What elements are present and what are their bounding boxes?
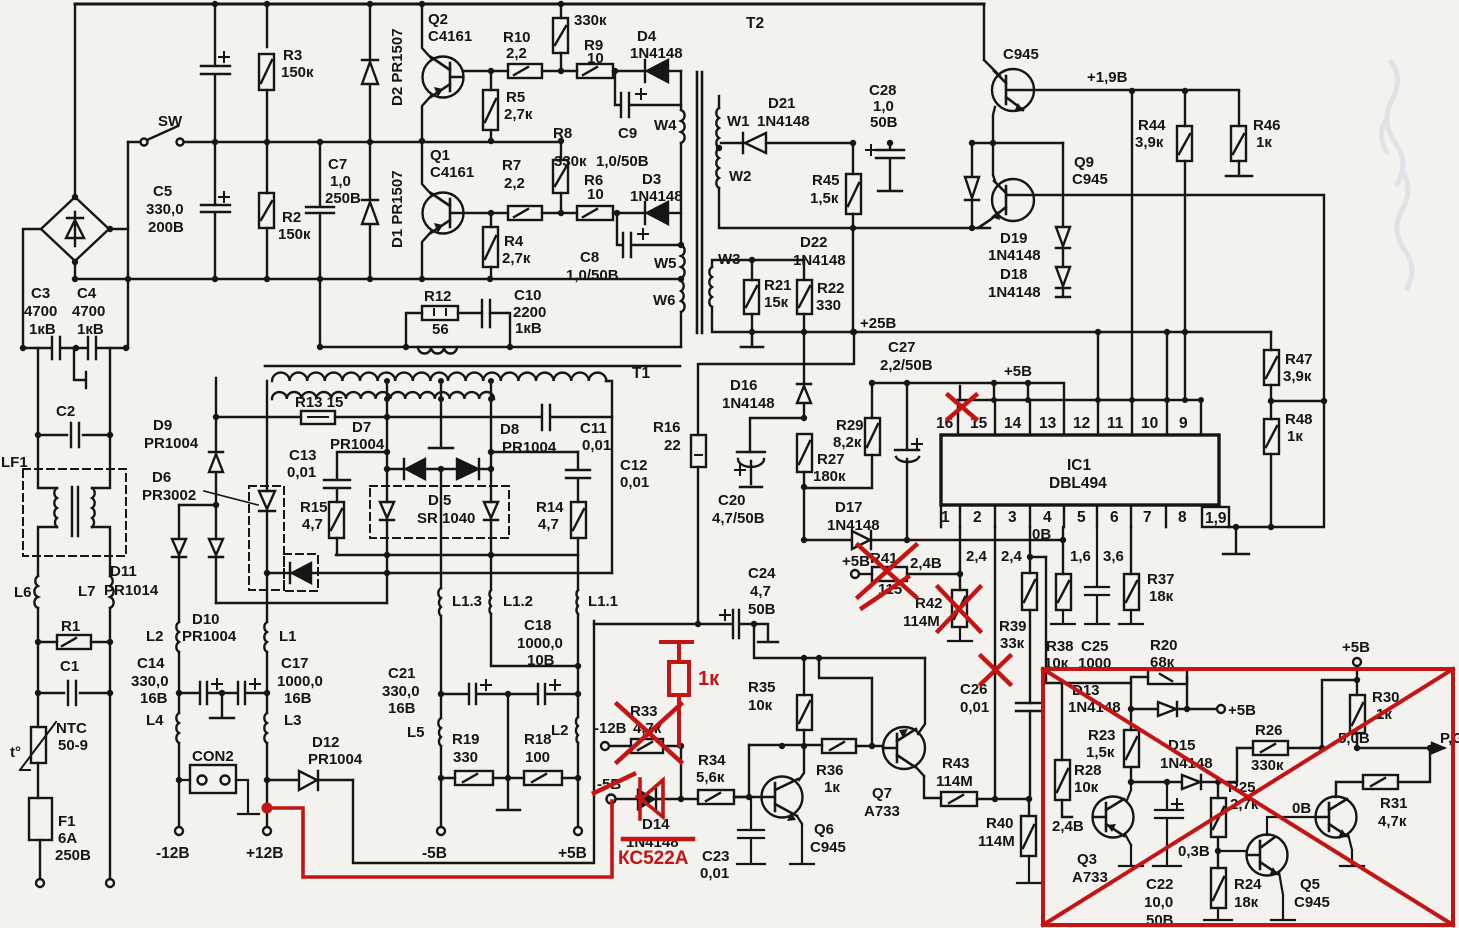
svg-text:0,01: 0,01 bbox=[960, 699, 989, 716]
resistor R31 row bbox=[1336, 782, 1363, 797]
svg-text:18к: 18к bbox=[1234, 894, 1259, 911]
inductor L1 column bbox=[264, 622, 267, 652]
capacitor C23 bbox=[737, 797, 765, 864]
svg-text:2,7к: 2,7к bbox=[504, 106, 533, 123]
resistor R28 bbox=[1061, 683, 1063, 760]
svg-text:C945: C945 bbox=[1294, 894, 1330, 911]
wire snubber line y=347 bbox=[320, 346, 681, 348]
wire +25V rail bbox=[752, 331, 1271, 333]
wire Q6 emitter ground bbox=[790, 816, 814, 864]
svg-text:1,0: 1,0 bbox=[330, 173, 351, 190]
inductor L5 bbox=[438, 694, 441, 746]
svg-text:D21: D21 bbox=[768, 95, 796, 112]
junction dots bbox=[176, 378, 581, 783]
wire bottom loop y=603 bbox=[216, 602, 387, 604]
svg-text:0,01: 0,01 bbox=[620, 474, 649, 491]
capacitor C22 bbox=[1153, 782, 1183, 866]
connector CON2 bbox=[190, 765, 236, 793]
wire +5V branch bbox=[1322, 680, 1357, 748]
svg-text:2,4: 2,4 bbox=[966, 548, 988, 565]
svg-text:2200: 2200 bbox=[513, 304, 546, 321]
capacitor C2 bbox=[38, 423, 110, 447]
svg-text:-12В: -12В bbox=[156, 845, 190, 862]
svg-text:R10: R10 bbox=[503, 29, 531, 46]
svg-text:D7: D7 bbox=[352, 419, 371, 436]
svg-text:C2: C2 bbox=[56, 403, 75, 420]
wire Q8 collector to top border bbox=[984, 4, 1000, 76]
wire x=681 link bbox=[680, 746, 682, 799]
svg-text:114М: 114М bbox=[978, 833, 1015, 850]
svg-text:+1,9В: +1,9В bbox=[1087, 69, 1128, 86]
svg-text:D 5: D 5 bbox=[428, 492, 451, 509]
svg-text:7: 7 bbox=[1143, 509, 1152, 526]
diode D6 lower bbox=[290, 563, 311, 583]
snubber loop R12 C10 bbox=[406, 313, 510, 347]
svg-text:L5: L5 bbox=[407, 724, 425, 741]
wire pin2 column bbox=[994, 527, 996, 799]
svg-text:1: 1 bbox=[941, 509, 950, 526]
svg-text:1N4148: 1N4148 bbox=[757, 113, 810, 130]
transistor Q2 bbox=[423, 57, 464, 98]
svg-text:0,01: 0,01 bbox=[582, 437, 611, 454]
resistor R37 bbox=[1130, 527, 1132, 574]
diode D10 pair left bbox=[172, 505, 186, 622]
svg-text:1N4148: 1N4148 bbox=[988, 247, 1041, 264]
svg-text:4,7: 4,7 bbox=[538, 516, 559, 533]
svg-text:16В: 16В bbox=[284, 690, 312, 707]
wire tap x=491 bbox=[490, 385, 492, 502]
svg-text:1,9: 1,9 bbox=[1205, 510, 1227, 527]
inductor L1.2 bbox=[489, 555, 491, 614]
svg-text:DBL494: DBL494 bbox=[1049, 475, 1107, 492]
resistor R44 bbox=[1184, 91, 1186, 126]
diode D17 row bbox=[804, 531, 1063, 549]
svg-text:10: 10 bbox=[587, 50, 604, 67]
resistor R8 bbox=[560, 141, 562, 160]
svg-text:114М: 114М bbox=[936, 773, 973, 790]
svg-text:C24: C24 bbox=[748, 565, 776, 582]
svg-text:W2: W2 bbox=[729, 168, 752, 185]
svg-text:56: 56 bbox=[432, 321, 449, 338]
capacitor C13 resistor R15 bbox=[324, 452, 387, 502]
svg-text:330: 330 bbox=[816, 297, 841, 314]
diode D3 bbox=[645, 202, 668, 224]
svg-text:1кВ: 1кВ bbox=[29, 321, 56, 338]
svg-text:10: 10 bbox=[587, 186, 604, 203]
wire C2 loop verticals bbox=[38, 348, 110, 435]
transformer T2 core bbox=[697, 72, 702, 333]
svg-text:F1: F1 bbox=[58, 813, 76, 830]
svg-text:+5В: +5В bbox=[1228, 702, 1256, 719]
diode row right bbox=[441, 459, 491, 479]
diode D12 bbox=[267, 771, 353, 790]
red X on R41 bbox=[858, 545, 916, 608]
resistor R22 bbox=[803, 260, 805, 280]
svg-text:12: 12 bbox=[1073, 415, 1090, 432]
red X on wire pin2 bbox=[981, 656, 1010, 684]
wire Q6 base node bbox=[734, 745, 762, 797]
svg-text:CON2: CON2 bbox=[192, 748, 234, 765]
svg-text:PR1014: PR1014 bbox=[104, 582, 159, 599]
svg-text:2,7к: 2,7к bbox=[502, 250, 531, 267]
svg-text:0,3В: 0,3В bbox=[1178, 843, 1210, 860]
svg-text:9: 9 bbox=[1179, 415, 1188, 432]
svg-text:150к: 150к bbox=[281, 64, 314, 81]
svg-text:330,0: 330,0 bbox=[382, 683, 420, 700]
resistor R38 bbox=[1062, 540, 1064, 574]
svg-text:C1: C1 bbox=[60, 658, 79, 675]
resistor R6 bbox=[577, 206, 613, 220]
svg-text:50В: 50В bbox=[748, 601, 776, 618]
wire pin9 feed x=1185 bbox=[1184, 332, 1186, 400]
svg-text:D14: D14 bbox=[642, 816, 670, 833]
terminal +12V bbox=[266, 780, 268, 826]
transformer T2 winding W1 bbox=[716, 108, 719, 148]
svg-text:R43: R43 bbox=[942, 755, 970, 772]
svg-text:3,9к: 3,9к bbox=[1283, 368, 1312, 385]
svg-text:10В: 10В bbox=[527, 652, 555, 669]
svg-text:C13: C13 bbox=[289, 447, 317, 464]
svg-text:Q6: Q6 bbox=[814, 821, 834, 838]
svg-text:0,01: 0,01 bbox=[287, 464, 316, 481]
diode D18 bbox=[1056, 248, 1070, 297]
wire bridge left to C3 column bbox=[23, 229, 40, 348]
svg-text:Q7: Q7 bbox=[872, 785, 892, 802]
dashed box D6 bbox=[249, 486, 284, 590]
svg-text:W5: W5 bbox=[654, 255, 677, 272]
svg-text:R16: R16 bbox=[653, 419, 681, 436]
diode row left bbox=[387, 459, 441, 479]
svg-text:330к: 330к bbox=[574, 12, 607, 29]
diode D5 left bbox=[380, 502, 394, 555]
svg-text:200В: 200В bbox=[148, 219, 184, 236]
inductor bumps on line bbox=[418, 347, 457, 354]
wire R47 R48 junction row bbox=[1271, 400, 1324, 402]
svg-text:L1: L1 bbox=[279, 628, 297, 645]
wire W2 bottom line y=228 bbox=[719, 188, 990, 228]
dashed box D5 SR1040 bbox=[370, 486, 509, 538]
diode D9 bbox=[209, 452, 223, 539]
diode D15 row bbox=[1131, 748, 1237, 789]
wire y=573 line bbox=[267, 572, 612, 574]
svg-text:1N4148: 1N4148 bbox=[988, 284, 1041, 301]
transistor Q8 bbox=[992, 69, 1034, 111]
svg-text:C18: C18 bbox=[524, 617, 552, 634]
resistor R12 bbox=[422, 306, 458, 320]
svg-text:D3: D3 bbox=[642, 171, 661, 188]
wire Q4 collector emitter bbox=[1336, 782, 1364, 866]
thyristor D6 bbox=[259, 491, 275, 511]
wire Q7 base feed step bbox=[819, 658, 872, 746]
svg-text:D19: D19 bbox=[1000, 230, 1028, 247]
svg-text:P,G: P,G bbox=[1440, 730, 1459, 747]
svg-text:2,2/50В: 2,2/50В bbox=[880, 357, 933, 374]
inductor L6 bbox=[34, 576, 38, 608]
LF1 windings bbox=[38, 435, 110, 488]
diode D16 column bbox=[797, 332, 811, 418]
svg-text:W6: W6 bbox=[653, 292, 676, 309]
capacitor C9 bbox=[615, 71, 681, 117]
resistor R30 bbox=[1350, 695, 1365, 733]
terminal +5V top bbox=[1353, 658, 1361, 666]
resistor R26 row bbox=[1237, 747, 1253, 749]
svg-text:W1: W1 bbox=[727, 113, 750, 130]
svg-text:250В: 250В bbox=[325, 190, 361, 207]
svg-text:4: 4 bbox=[1043, 509, 1052, 526]
svg-text:C10: C10 bbox=[514, 287, 542, 304]
svg-text:R45: R45 bbox=[812, 172, 840, 189]
wire Q3 collector emitter bbox=[1119, 782, 1143, 866]
svg-text:C11: C11 bbox=[580, 420, 607, 437]
wire y=555 line bbox=[336, 554, 578, 556]
svg-text:C21: C21 bbox=[388, 665, 416, 682]
svg-text:R18: R18 bbox=[524, 731, 552, 748]
diode D22 bbox=[890, 142, 965, 144]
svg-text:1N4148: 1N4148 bbox=[630, 188, 683, 205]
svg-text:1000,0: 1000,0 bbox=[517, 635, 563, 652]
resistor R40 bbox=[1028, 799, 1030, 816]
wire left vertical to bridge bbox=[74, 4, 76, 197]
terminal -12V bbox=[178, 780, 180, 826]
svg-text:330к: 330к bbox=[1251, 757, 1284, 774]
wire pin10 feed x=1167 bbox=[1166, 332, 1168, 400]
svg-text:15к: 15к bbox=[764, 294, 789, 311]
svg-text:1,5к: 1,5к bbox=[1086, 744, 1115, 761]
svg-text:2,2: 2,2 bbox=[504, 175, 525, 192]
junction dots bbox=[716, 88, 1327, 404]
svg-text:0В: 0В bbox=[1292, 800, 1311, 817]
svg-text:D17: D17 bbox=[835, 499, 863, 516]
resistor R35 bbox=[803, 658, 805, 695]
pin 1,9 box bbox=[1202, 507, 1229, 527]
svg-text:LF1: LF1 bbox=[1, 454, 28, 471]
svg-text:1N4148: 1N4148 bbox=[630, 45, 683, 62]
svg-text:-5В: -5В bbox=[422, 845, 447, 862]
svg-text:10,0: 10,0 bbox=[1144, 894, 1173, 911]
svg-text:L7: L7 bbox=[78, 583, 96, 600]
svg-text:0В: 0В bbox=[1032, 526, 1051, 543]
svg-text:114М: 114М bbox=[903, 613, 940, 630]
svg-text:+5В: +5В bbox=[842, 553, 870, 570]
svg-text:1N4148: 1N4148 bbox=[722, 395, 775, 412]
svg-text:R5: R5 bbox=[506, 89, 525, 106]
wire Q1 emitter row y=213 bbox=[463, 212, 508, 214]
svg-text:КС522А: КС522А bbox=[618, 848, 689, 869]
svg-text:180к: 180к bbox=[813, 468, 846, 485]
junction dots bbox=[20, 1, 373, 696]
svg-text:IC1: IC1 bbox=[1067, 457, 1092, 474]
svg-text:L1.2: L1.2 bbox=[503, 593, 533, 610]
svg-text:T1: T1 bbox=[632, 365, 650, 382]
svg-text:50-9: 50-9 bbox=[58, 737, 88, 754]
capacitor C3 capacitor C4 row bbox=[23, 337, 128, 359]
transformer T2 winding W2 bbox=[716, 148, 719, 188]
svg-text:L1.3: L1.3 bbox=[452, 593, 482, 610]
transistor Q9 bbox=[992, 179, 1034, 221]
svg-text:330к: 330к bbox=[554, 153, 587, 170]
svg-text:D6: D6 bbox=[152, 469, 171, 486]
svg-text:4,7: 4,7 bbox=[302, 516, 323, 533]
wire L6 L7 to R1 row bbox=[38, 608, 110, 693]
svg-text:C23: C23 bbox=[702, 848, 730, 865]
wire +5V node line bbox=[872, 383, 1064, 400]
svg-text:4,7к: 4,7к bbox=[1378, 813, 1407, 830]
svg-text:R48: R48 bbox=[1285, 411, 1313, 428]
svg-text:330,0: 330,0 bbox=[131, 673, 169, 690]
transistor Q4 right bbox=[1316, 797, 1357, 838]
svg-text:C945: C945 bbox=[810, 839, 846, 856]
wire R33 row bbox=[601, 742, 609, 750]
resistor R20 loop bbox=[1131, 677, 1148, 709]
capacitor C7 bbox=[306, 142, 334, 347]
resistor R36 row bbox=[749, 744, 822, 746]
svg-text:R34: R34 bbox=[698, 752, 726, 769]
resistor R1 bbox=[57, 635, 91, 649]
svg-text:D10: D10 bbox=[192, 611, 220, 628]
resistor R42 bbox=[952, 590, 967, 627]
svg-text:C4: C4 bbox=[77, 285, 97, 302]
svg-text:10к: 10к bbox=[1074, 779, 1099, 796]
svg-text:R37: R37 bbox=[1147, 571, 1175, 588]
svg-text:R1: R1 bbox=[61, 618, 80, 635]
resistor R4 bbox=[490, 213, 492, 227]
svg-text:R28: R28 bbox=[1074, 762, 1102, 779]
svg-text:R35: R35 bbox=[748, 679, 776, 696]
svg-text:1,0: 1,0 bbox=[873, 98, 894, 115]
wire D12 to -5V box bbox=[353, 621, 594, 863]
svg-text:2,4В: 2,4В bbox=[1052, 818, 1084, 835]
svg-text:R47: R47 bbox=[1285, 351, 1313, 368]
diode D19 bbox=[1056, 143, 1070, 248]
wire pin19 loop right bbox=[1229, 401, 1324, 527]
resistor R3 bbox=[266, 4, 268, 193]
svg-text:L6: L6 bbox=[14, 584, 32, 601]
junction dots bbox=[991, 397, 1274, 530]
inductor L3 bbox=[264, 693, 267, 743]
svg-text:R40: R40 bbox=[986, 815, 1014, 832]
ground on pin19 line bbox=[1223, 527, 1249, 554]
svg-text:D18: D18 bbox=[1000, 266, 1028, 283]
svg-text:2,4В: 2,4В bbox=[910, 555, 942, 572]
svg-text:PR1004: PR1004 bbox=[182, 628, 237, 645]
inductor L2 right bbox=[576, 694, 578, 743]
inductor L1.3 bbox=[438, 588, 441, 616]
resistor R43 bbox=[941, 792, 977, 806]
svg-text:3,9к: 3,9к bbox=[1135, 134, 1164, 151]
svg-text:L2: L2 bbox=[551, 722, 569, 739]
svg-text:5: 5 bbox=[1077, 509, 1086, 526]
svg-text:R21: R21 bbox=[764, 277, 792, 294]
wire Q2 emitter row y=71 bbox=[463, 70, 508, 72]
transistor Q3 bbox=[1093, 797, 1134, 838]
svg-text:D11: D11 bbox=[110, 563, 137, 580]
transistor Q7 bbox=[883, 727, 925, 769]
svg-text:C8: C8 bbox=[580, 249, 599, 266]
svg-text:D4: D4 bbox=[637, 28, 657, 45]
terminal left bbox=[36, 879, 44, 887]
resistor R18 bbox=[524, 771, 562, 785]
svg-text:C945: C945 bbox=[1072, 171, 1108, 188]
red X on R42 bbox=[938, 587, 980, 631]
svg-text:R23: R23 bbox=[1088, 727, 1116, 744]
wire D16 node to C20 bbox=[750, 418, 804, 452]
svg-text:33к: 33к bbox=[1000, 635, 1025, 652]
svg-text:R20: R20 bbox=[1150, 637, 1178, 654]
svg-text:+5В: +5В bbox=[1004, 363, 1032, 380]
terminal right bbox=[106, 879, 114, 887]
svg-text:R26: R26 bbox=[1255, 722, 1283, 739]
transformer T2 winding W4 bbox=[681, 71, 685, 143]
wire x=387 lower bbox=[386, 555, 388, 603]
svg-text:2,2: 2,2 bbox=[506, 45, 527, 62]
resistor R7 bbox=[508, 206, 542, 220]
diode D14 bbox=[616, 789, 698, 810]
svg-text:C9: C9 bbox=[618, 125, 637, 142]
svg-text:R24: R24 bbox=[1234, 876, 1262, 893]
capacitor C26 bbox=[1016, 703, 1044, 799]
svg-text:11: 11 bbox=[1107, 415, 1124, 432]
red X on R33 bbox=[617, 704, 681, 762]
wire W6 bottom to snubber line bbox=[680, 312, 682, 347]
svg-text:R12: R12 bbox=[424, 288, 452, 305]
svg-text:R38: R38 bbox=[1046, 638, 1074, 655]
svg-text:D1 PR1507: D1 PR1507 bbox=[389, 170, 406, 248]
svg-text:6A: 6A bbox=[58, 830, 77, 847]
wire Q2 collector riser x=422 bbox=[422, 4, 431, 279]
svg-text:NTC: NTC bbox=[56, 720, 87, 737]
svg-text:W3: W3 bbox=[718, 251, 741, 268]
wire Q5 base collector emitter bbox=[1218, 817, 1316, 920]
svg-text:L4: L4 bbox=[146, 712, 164, 729]
resistor R29 loop bbox=[871, 383, 873, 418]
svg-text:100: 100 bbox=[525, 749, 550, 766]
svg-text:C20: C20 bbox=[718, 492, 746, 509]
svg-text:C12: C12 bbox=[620, 457, 648, 474]
resistor R24 bbox=[1217, 851, 1219, 868]
ground under R21 bbox=[741, 332, 763, 347]
svg-text:t°: t° bbox=[10, 744, 21, 761]
svg-text:1к: 1к bbox=[698, 668, 720, 690]
svg-text:0,01: 0,01 bbox=[700, 865, 729, 882]
svg-text:1кВ: 1кВ bbox=[515, 320, 542, 337]
pin stub 15 crossed bbox=[959, 386, 961, 400]
capacitor C14 C15 row bbox=[179, 682, 267, 704]
wire column x=267 bbox=[266, 381, 268, 622]
svg-text:PR1004: PR1004 bbox=[502, 439, 557, 456]
svg-text:Q5: Q5 bbox=[1300, 876, 1320, 893]
pin row bottom bbox=[941, 505, 1166, 527]
resistor R41 crossed bbox=[851, 570, 859, 578]
transformer T2 winding W6 bbox=[681, 279, 685, 312]
svg-text:C22: C22 bbox=[1146, 876, 1174, 893]
svg-text:R4: R4 bbox=[504, 233, 524, 250]
transistor Q5 bbox=[1247, 835, 1288, 876]
diode D13 row bbox=[1131, 702, 1216, 716]
red X on pin15 bbox=[948, 395, 976, 419]
svg-text:R46: R46 bbox=[1253, 117, 1281, 134]
svg-text:1к: 1к bbox=[1256, 134, 1272, 151]
svg-text:-12В: -12В bbox=[594, 720, 627, 737]
svg-text:PR1004: PR1004 bbox=[144, 435, 199, 452]
red zener over D14 bbox=[637, 779, 663, 819]
wire top border bbox=[75, 3, 984, 6]
svg-text:1кВ: 1кВ bbox=[77, 321, 104, 338]
svg-text:4700: 4700 bbox=[72, 303, 105, 320]
wire W2 mid tap to D21 bbox=[721, 142, 743, 144]
resistor R47 bbox=[1264, 350, 1279, 385]
capacitor C28 bbox=[876, 143, 904, 191]
diode D10 pair right bbox=[209, 539, 223, 603]
